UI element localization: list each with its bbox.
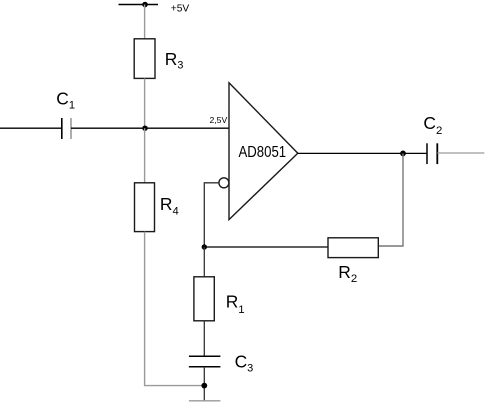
svg-text:AD8051: AD8051 <box>239 144 287 161</box>
wire R1 to C3 <box>203 321 205 357</box>
+5V power rail bar <box>119 4 159 6</box>
wire +5V rail to R3 <box>144 5 146 40</box>
wire C3 to ground <box>203 367 205 401</box>
wire input node to R4 <box>144 128 146 183</box>
wire output node to C2 <box>403 152 427 154</box>
resistor R3 <box>134 39 155 79</box>
resistor R2 <box>328 238 378 258</box>
resistor R1 <box>194 277 214 321</box>
wire C1 to input node <box>71 127 145 129</box>
capacitor C1 <box>62 118 71 139</box>
output wire op-amp to node <box>298 152 403 154</box>
output node dot <box>400 151 406 157</box>
ground node dot <box>201 383 207 389</box>
output wire right of C2 <box>437 152 484 154</box>
op-amp U1 AD8051 <box>229 83 298 220</box>
wire R3 to input node <box>144 78 146 128</box>
wire feedback node to bubble <box>204 183 219 247</box>
ground bar <box>189 400 221 402</box>
input wire (left edge to C1) <box>0 127 62 129</box>
inverting input bubble <box>219 178 229 188</box>
wire R4 down and across to C3 bottom node <box>145 232 205 386</box>
wire feedback node to R1 <box>203 247 205 277</box>
wire input node to op-amp +input <box>145 127 229 129</box>
svg-text:+5V: +5V <box>171 4 190 15</box>
junction dot on +5V rail <box>142 2 148 8</box>
wire feedback node to R2 <box>204 246 328 248</box>
input node dot <box>142 126 147 131</box>
svg-text:2,5V: 2,5V <box>210 115 228 125</box>
capacitor C2 <box>427 143 437 164</box>
capacitor C3 <box>189 356 221 366</box>
wire output node down to R2 <box>378 153 403 246</box>
feedback node dot <box>202 244 207 249</box>
resistor R4 <box>135 183 155 232</box>
